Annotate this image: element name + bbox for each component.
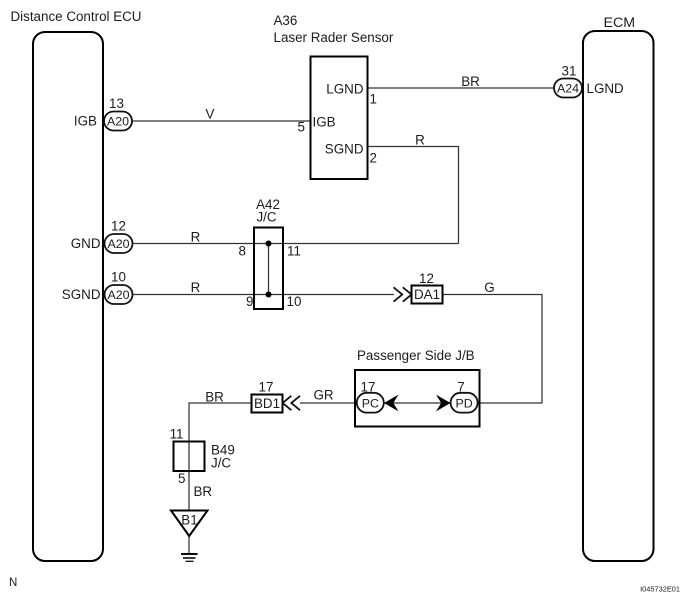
svg-text:DA1: DA1: [414, 287, 440, 302]
junction dot (GND): [266, 241, 272, 247]
svg-text:BD1: BD1: [254, 396, 280, 411]
svg-text:BR: BR: [205, 390, 224, 405]
svg-text:B1: B1: [181, 513, 197, 528]
svg-text:10: 10: [287, 294, 302, 309]
wire GR: BD1 to PC pin17: [300, 402, 357, 404]
svg-text:PC: PC: [362, 397, 379, 411]
svg-text:A20: A20: [107, 237, 129, 251]
svg-text:17: 17: [259, 380, 274, 395]
svg-text:ECM: ECM: [604, 15, 636, 31]
svg-text:5: 5: [178, 471, 185, 486]
ground point B1 triangle: [171, 511, 208, 537]
junction dot (SGND): [266, 292, 272, 298]
svg-text:2: 2: [370, 151, 377, 166]
laser radar sensor A36 box: [311, 57, 368, 180]
Distance Control ECU box: [33, 32, 103, 561]
svg-text:IGB: IGB: [74, 114, 97, 129]
wire IGB: A20 pin13 to sensor pin5: [133, 120, 311, 122]
wire LGND: sensor pin1 to ECM A24: [368, 87, 555, 89]
wire G: DA1 to Passenger Side J/B PD pin7: [443, 295, 543, 404]
passenger side J/B box: [355, 370, 480, 427]
svg-text:Passenger Side J/B: Passenger Side J/B: [357, 348, 475, 363]
svg-text:J/C: J/C: [211, 456, 231, 471]
svg-text:31: 31: [562, 64, 577, 79]
svg-text:PD: PD: [455, 397, 472, 411]
svg-text:V: V: [206, 107, 215, 122]
svg-text:N: N: [9, 577, 17, 589]
svg-text:SGND: SGND: [62, 287, 101, 302]
ground symbol: [181, 554, 198, 561]
svg-text:5: 5: [298, 120, 305, 135]
svg-text:A20: A20: [107, 288, 129, 302]
svg-text:R: R: [191, 280, 201, 295]
svg-text:12: 12: [419, 271, 434, 286]
junction block A42 box: [254, 228, 283, 310]
wire through B49 to ground triangle B1: [188, 442, 190, 511]
svg-text:GND: GND: [71, 236, 101, 251]
filled arrow left (into PC): [384, 395, 399, 412]
J/B internal wire PC-PD: [384, 402, 451, 404]
junction block B49 box: [174, 442, 205, 472]
svg-text:LGND: LGND: [587, 81, 625, 96]
svg-text:A36: A36: [274, 13, 298, 28]
svg-text:BR: BR: [461, 74, 480, 89]
svg-text:SGND: SGND: [325, 142, 364, 157]
svg-text:Distance Control ECU: Distance Control ECU: [11, 9, 142, 24]
svg-text:8: 8: [239, 244, 246, 259]
svg-text:13: 13: [109, 96, 124, 111]
svg-text:10: 10: [111, 270, 126, 285]
svg-text:1: 1: [370, 92, 377, 107]
svg-text:Laser Rader Sensor: Laser Rader Sensor: [274, 30, 394, 45]
svg-text:I045732E01: I045732E01: [640, 585, 680, 594]
svg-text:12: 12: [111, 219, 126, 234]
splice arrows into DA1: [394, 287, 403, 301]
wire GND: A20 pin12 through A42 J/C: [133, 243, 459, 245]
wire SGND ECU: A20 pin10 to DA1: [133, 294, 395, 296]
svg-text:R: R: [415, 133, 425, 148]
filled arrow right (into PD): [436, 395, 451, 412]
wire SGND sensor pin2 down to GND wire: [368, 147, 459, 244]
wire B1 triangle to ground: [188, 536, 190, 554]
svg-text:J/C: J/C: [256, 210, 276, 225]
svg-text:G: G: [484, 280, 494, 295]
svg-text:A20: A20: [107, 115, 129, 129]
wire BR: BD1 to B49 J/C pin11: [189, 403, 252, 442]
svg-text:R: R: [191, 230, 201, 245]
ECM box: [583, 31, 654, 561]
svg-text:A24: A24: [557, 82, 579, 96]
svg-text:11: 11: [287, 244, 301, 259]
svg-text:BR: BR: [194, 484, 213, 499]
svg-text:IGB: IGB: [313, 115, 336, 130]
svg-text:11: 11: [170, 427, 184, 442]
splice arrows into BD1: [283, 396, 292, 410]
A42 internal link wire: [268, 244, 270, 295]
svg-text:GR: GR: [313, 388, 333, 403]
svg-text:LGND: LGND: [326, 82, 364, 97]
svg-text:9: 9: [246, 294, 253, 309]
